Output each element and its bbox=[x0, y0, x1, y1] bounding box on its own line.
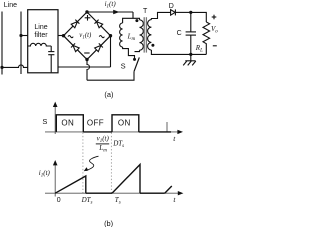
diode bridge top-left bbox=[71, 20, 79, 28]
arrow i1 current direction bbox=[113, 10, 119, 15]
wire filter lower output to bridge right (AC return) bbox=[58, 66, 111, 68]
wire transformer input drop bbox=[132, 12, 134, 18]
node output bottom junction bbox=[189, 53, 192, 56]
block Line filter box bbox=[28, 10, 58, 73]
capacitor C bbox=[186, 12, 196, 54]
svg-text:ON: ON bbox=[61, 118, 74, 127]
arrow leader tip bbox=[84, 167, 89, 171]
inductor inside line filter bbox=[28, 43, 52, 46]
node bridge left vertex bbox=[62, 34, 65, 37]
node junction on line 2 bbox=[19, 34, 22, 37]
node transformer primary dot bbox=[135, 19, 138, 22]
arrow t axis of i1 bbox=[178, 191, 184, 195]
wire secondary bottom rail bbox=[151, 50, 206, 54]
wire top to load bbox=[191, 12, 207, 22]
wire line terminal 2 (right AC line) bbox=[20, 12, 22, 75]
svg-text:(a): (a) bbox=[104, 90, 113, 99]
transformer T primary winding bbox=[140, 20, 144, 50]
node output top junction bbox=[189, 11, 192, 14]
wire line1 to filter box lower input with hop over line2 bbox=[2, 65, 28, 68]
label ~ left bbox=[68, 36, 73, 38]
svg-text:T: T bbox=[143, 8, 148, 15]
diode bridge bottom-left bbox=[71, 43, 79, 51]
svg-text:S: S bbox=[121, 61, 126, 70]
label ~ right bbox=[99, 36, 104, 38]
wire line2 to filter box top input bbox=[21, 35, 28, 37]
wire bottom rail to switch bbox=[87, 72, 134, 81]
wire top leads to Lm and primary bbox=[123, 18, 140, 23]
diode bridge top-right bbox=[95, 20, 103, 28]
bridge rectifier diamond bbox=[64, 12, 111, 60]
svg-text:C: C bbox=[177, 30, 182, 37]
label + output bbox=[212, 15, 217, 20]
wire bridge top to transformer with current arrow bbox=[87, 11, 133, 13]
wire secondary top lead to diode bbox=[151, 12, 170, 19]
node junction on line 1 bbox=[0, 66, 3, 69]
svg-text:filter: filter bbox=[34, 32, 48, 39]
wire bridge bottom vertex down with hop bbox=[87, 60, 90, 81]
wire line terminal 1 (left AC line) bbox=[1, 12, 3, 75]
svg-text:OFF: OFF bbox=[87, 118, 104, 127]
label slope fraction v1(t)/Lm DTs bbox=[97, 135, 125, 154]
label minus of bridge bbox=[84, 52, 89, 54]
dashed line at Ts bbox=[110, 133, 112, 193]
S off segment 1 bbox=[83, 131, 112, 133]
node switch fixed contact bbox=[133, 58, 136, 61]
leader curve to slope bbox=[86, 156, 98, 170]
label + of bridge bbox=[85, 15, 91, 21]
node bridge top vertex bbox=[85, 10, 88, 13]
i1 triangle 1 bbox=[55, 176, 86, 193]
waveform i1 axis bbox=[45, 162, 178, 197]
fraction bar bbox=[96, 143, 109, 145]
arrow t axis of S bbox=[177, 130, 183, 134]
switch S blade bbox=[134, 57, 139, 71]
resistor RL bbox=[203, 22, 210, 54]
S pulse 1 bbox=[56, 115, 83, 132]
ground symbol bbox=[183, 54, 196, 65]
transformer core lines bbox=[144, 17, 146, 52]
svg-text:Line: Line bbox=[4, 2, 17, 9]
diode D bbox=[171, 9, 191, 15]
capacitor inside line filter bbox=[48, 46, 54, 72]
svg-text:0: 0 bbox=[57, 197, 61, 204]
arrow i1 axis bbox=[53, 160, 58, 165]
i1 zero segment 2 bbox=[140, 192, 165, 194]
transformer T secondary winding bbox=[148, 20, 152, 50]
svg-text:(b): (b) bbox=[104, 219, 113, 227]
S off segment 2 bbox=[139, 131, 171, 133]
wire bridge right vertex down bbox=[110, 36, 112, 67]
node bridge right vertex bbox=[109, 34, 112, 37]
i1 zero segment 1 bbox=[86, 192, 112, 194]
node bridge bottom vertex bbox=[85, 58, 88, 61]
svg-text:Line: Line bbox=[34, 24, 47, 31]
svg-text:D: D bbox=[169, 3, 174, 10]
wire bottom leads of Lm and primary to switch bbox=[123, 47, 135, 58]
label minus output bbox=[213, 45, 217, 47]
diode bridge bottom-right bbox=[95, 43, 103, 51]
dashed line at DTs bbox=[82, 133, 84, 193]
svg-text:S: S bbox=[42, 117, 47, 126]
inductor Lm magnetizing bbox=[120, 23, 123, 47]
S pulse 2 bbox=[112, 115, 139, 132]
svg-text:ON: ON bbox=[118, 118, 131, 127]
waveform S axis bbox=[45, 104, 178, 135]
arrow S axis bbox=[53, 102, 58, 107]
node transformer secondary dot bbox=[151, 44, 154, 47]
i1 triangle 2 bbox=[112, 165, 140, 194]
wire filter output to bridge left corner bbox=[58, 35, 64, 37]
i1 partial rise 3 bbox=[165, 186, 172, 193]
